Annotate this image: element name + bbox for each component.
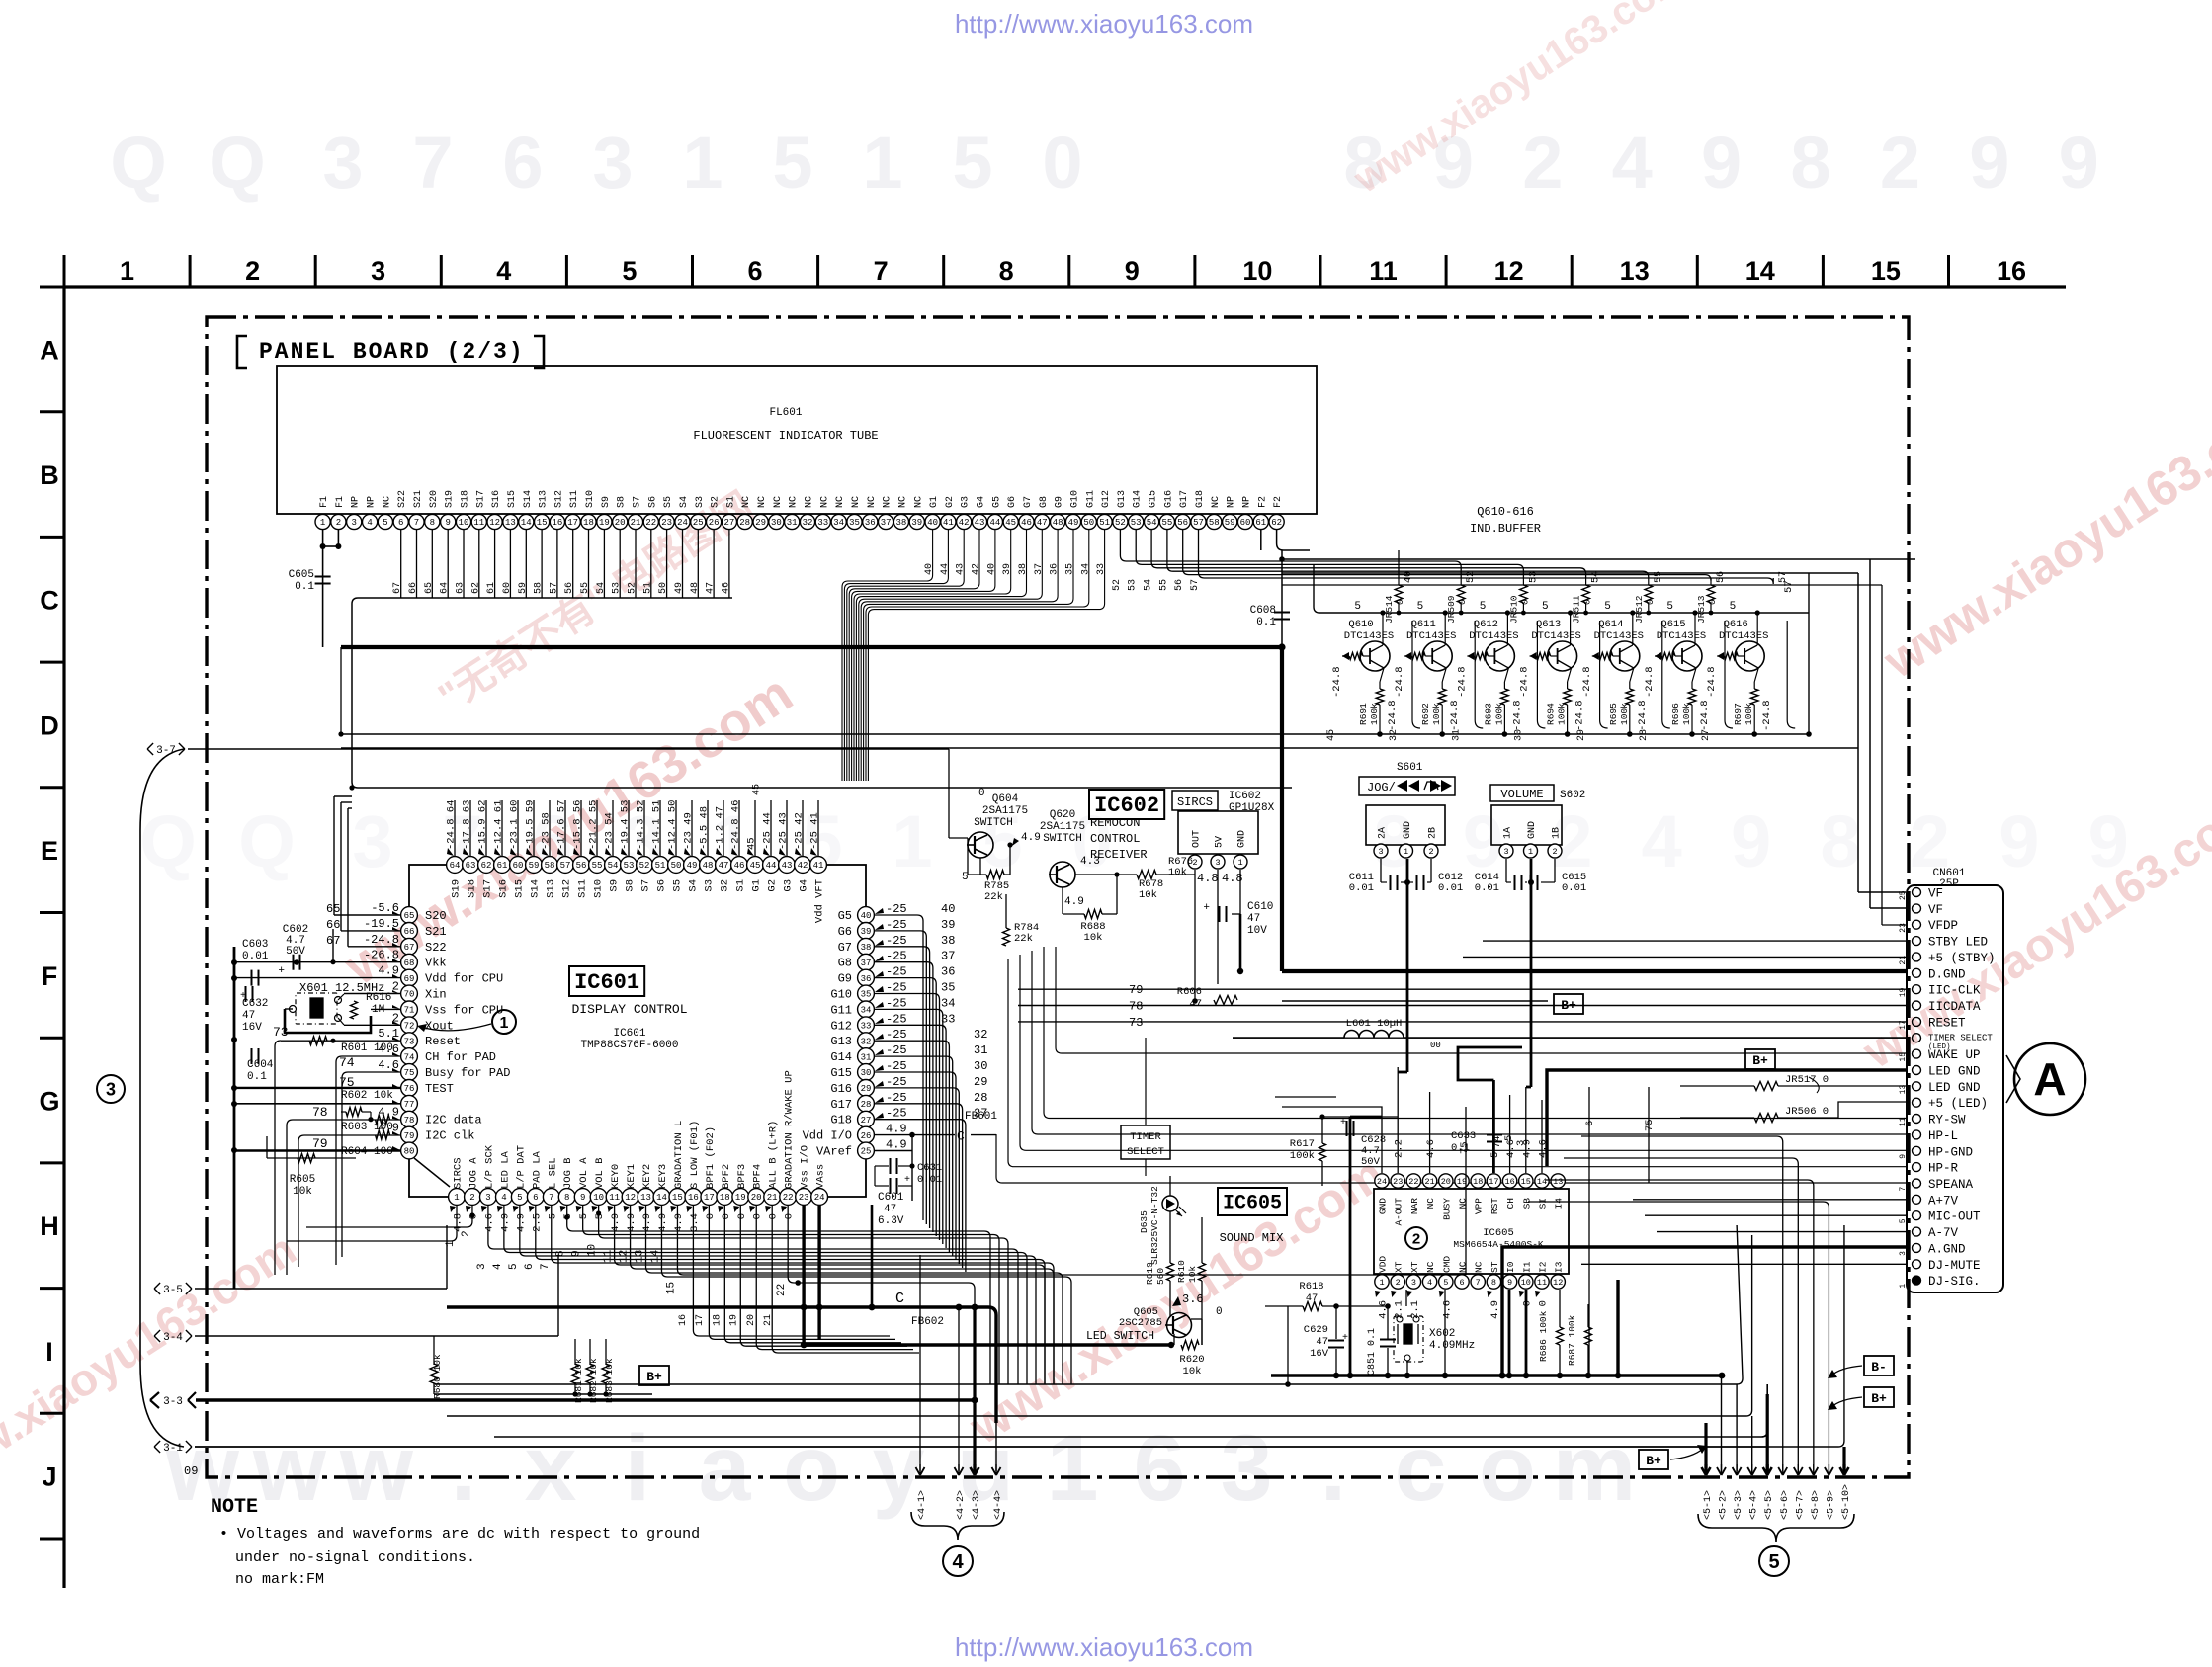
svg-text:D635: D635 xyxy=(1139,1210,1149,1233)
svg-text:Q610-616: Q610-616 xyxy=(1477,505,1534,519)
svg-text:GRADATION R/WAKE UP: GRADATION R/WAKE UP xyxy=(784,1070,796,1189)
svg-text:14: 14 xyxy=(1745,256,1775,286)
svg-text:-25: -25 xyxy=(886,1012,907,1026)
svg-text:65: 65 xyxy=(404,911,415,921)
svg-text:Vss for CPU: Vss for CPU xyxy=(425,1003,503,1017)
svg-text:45: 45 xyxy=(746,837,758,850)
svg-text:1: 1 xyxy=(1047,1416,1099,1521)
svg-text:39: 39 xyxy=(941,918,955,932)
svg-text:14: 14 xyxy=(1537,1177,1547,1187)
svg-text:38: 38 xyxy=(895,518,906,528)
svg-text:74: 74 xyxy=(339,1055,355,1070)
svg-text:0.1: 0.1 xyxy=(295,581,314,593)
svg-text:I4: I4 xyxy=(1554,1198,1565,1209)
svg-text:NC: NC xyxy=(805,496,815,508)
svg-text:NC: NC xyxy=(897,496,908,508)
svg-text:ST: ST xyxy=(1489,1261,1500,1273)
svg-text:10k: 10k xyxy=(293,1186,312,1198)
svg-text:NC: NC xyxy=(1425,1261,1436,1273)
svg-text:56: 56 xyxy=(1174,579,1185,591)
svg-text:NP: NP xyxy=(1241,496,1252,508)
svg-text:1: 1 xyxy=(1379,1278,1384,1288)
svg-text:-23 49: -23 49 xyxy=(683,812,695,850)
svg-text:2B: 2B xyxy=(1428,827,1439,839)
svg-text:NC: NC xyxy=(883,496,893,508)
svg-text:4.6: 4.6 xyxy=(483,1213,495,1232)
svg-text:5: 5 xyxy=(517,1193,522,1203)
svg-text:50V: 50V xyxy=(286,946,305,958)
svg-text:-25: -25 xyxy=(886,981,907,995)
svg-text:4: 4 xyxy=(1612,122,1653,204)
svg-text:-24.8: -24.8 xyxy=(1331,666,1343,698)
svg-text:0: 0 xyxy=(1582,599,1593,605)
svg-text:4.9: 4.9 xyxy=(515,1213,527,1232)
svg-text:15: 15 xyxy=(537,518,548,528)
svg-text:39: 39 xyxy=(861,927,872,937)
svg-text:SLR325VC-N-T32: SLR325VC-N-T32 xyxy=(1149,1186,1160,1265)
svg-text:-24.8: -24.8 xyxy=(1581,666,1593,698)
svg-text:55: 55 xyxy=(1158,579,1169,591)
svg-text:4: 4 xyxy=(952,1551,964,1573)
svg-text:G8: G8 xyxy=(838,957,852,970)
svg-text:5: 5 xyxy=(383,518,387,528)
svg-text:C601: C601 xyxy=(878,1192,904,1204)
svg-text:S20: S20 xyxy=(429,490,440,508)
svg-text:G1: G1 xyxy=(929,496,940,508)
svg-text:Q613: Q613 xyxy=(1536,619,1561,630)
svg-text:I1: I1 xyxy=(1521,1261,1532,1273)
svg-text:http://www.xiaoyu163.com: http://www.xiaoyu163.com xyxy=(955,9,1253,39)
svg-text:S22: S22 xyxy=(397,490,408,508)
svg-text:37: 37 xyxy=(941,950,955,963)
svg-text:S20: S20 xyxy=(425,909,447,923)
svg-text:22: 22 xyxy=(1408,1177,1418,1187)
svg-text:SB: SB xyxy=(1521,1198,1532,1209)
svg-text:LED LA: LED LA xyxy=(499,1150,511,1189)
svg-text:47: 47 xyxy=(884,1204,896,1215)
svg-text:27: 27 xyxy=(1701,729,1712,741)
svg-text:4: 4 xyxy=(492,1263,504,1270)
svg-text:RESET: RESET xyxy=(1928,1016,1966,1030)
svg-text:L601 10µH: L601 10µH xyxy=(1346,1018,1403,1030)
svg-text:-25: -25 xyxy=(886,1043,907,1057)
svg-text:a: a xyxy=(699,1416,752,1521)
svg-text:L/P SCK: L/P SCK xyxy=(483,1144,495,1189)
svg-text:FB601: FB601 xyxy=(965,1111,997,1123)
svg-text:40: 40 xyxy=(861,911,872,921)
svg-text:33: 33 xyxy=(941,1012,955,1026)
svg-text:18: 18 xyxy=(712,1314,723,1326)
svg-text:4.8: 4.8 xyxy=(1197,872,1219,885)
svg-text:10: 10 xyxy=(593,1193,604,1203)
svg-text:IC605: IC605 xyxy=(1223,1192,1282,1214)
svg-text:47: 47 xyxy=(1247,913,1260,925)
svg-text:76: 76 xyxy=(404,1084,415,1094)
svg-text:33: 33 xyxy=(817,518,828,528)
svg-text:R617: R617 xyxy=(1290,1138,1315,1150)
svg-text:0.01: 0.01 xyxy=(1562,882,1586,894)
svg-text:45: 45 xyxy=(1326,729,1337,741)
svg-text:0: 0 xyxy=(752,1213,764,1219)
svg-text:62: 62 xyxy=(470,582,481,594)
svg-text:G17: G17 xyxy=(830,1098,852,1112)
svg-text:<5-6>: <5-6> xyxy=(1780,1490,1791,1520)
svg-text:F2: F2 xyxy=(1257,496,1268,508)
svg-text:NC: NC xyxy=(1458,1261,1469,1273)
svg-text:S9: S9 xyxy=(609,879,621,892)
svg-text:24: 24 xyxy=(814,1193,825,1203)
svg-text:63: 63 xyxy=(466,861,476,871)
svg-text:S13: S13 xyxy=(539,490,550,508)
svg-text:LED GND: LED GND xyxy=(1928,1081,1981,1095)
svg-text:1: 1 xyxy=(682,122,723,204)
svg-text:-23 54: -23 54 xyxy=(604,812,616,850)
svg-text:GND: GND xyxy=(1403,821,1413,839)
svg-text:35: 35 xyxy=(849,518,860,528)
svg-text:-24.8: -24.8 xyxy=(1449,700,1461,731)
svg-text:VDD: VDD xyxy=(1378,1256,1389,1273)
svg-text:4: 4 xyxy=(496,256,511,286)
svg-text:19: 19 xyxy=(729,1314,740,1326)
svg-text:G6: G6 xyxy=(1007,496,1018,508)
svg-text:DTC143ES: DTC143ES xyxy=(1344,630,1394,642)
svg-text:S601: S601 xyxy=(1397,762,1423,774)
svg-text:C632: C632 xyxy=(242,998,268,1010)
svg-text:00: 00 xyxy=(1430,1041,1441,1050)
svg-text:78: 78 xyxy=(1129,1000,1143,1014)
svg-text:<5-4>: <5-4> xyxy=(1749,1490,1760,1520)
svg-text:54: 54 xyxy=(1147,518,1157,528)
svg-text:-24.8: -24.8 xyxy=(1637,700,1649,731)
svg-text:BPF3: BPF3 xyxy=(736,1164,748,1189)
svg-text:IND.BUFFER: IND.BUFFER xyxy=(1470,522,1541,536)
svg-text:2: 2 xyxy=(1552,847,1557,857)
svg-text:C: C xyxy=(40,586,59,616)
svg-text:9: 9 xyxy=(1507,1278,1512,1288)
svg-text:64: 64 xyxy=(450,861,461,871)
svg-text:2: 2 xyxy=(461,1230,472,1237)
svg-text:1: 1 xyxy=(1528,847,1533,857)
svg-text:2SC2785: 2SC2785 xyxy=(1119,1317,1162,1329)
svg-text:VOL A: VOL A xyxy=(578,1157,590,1189)
svg-text:C633: C633 xyxy=(1451,1130,1476,1142)
svg-text:42: 42 xyxy=(798,861,808,871)
svg-text:-5.5 48: -5.5 48 xyxy=(699,806,711,850)
svg-text:0: 0 xyxy=(1216,1306,1223,1318)
svg-text:67: 67 xyxy=(404,943,415,953)
svg-text:5: 5 xyxy=(1480,601,1487,613)
svg-text:17: 17 xyxy=(704,1193,715,1203)
svg-text:1A: 1A xyxy=(1503,827,1514,839)
svg-text:5: 5 xyxy=(1666,601,1673,613)
svg-text:Q620: Q620 xyxy=(1050,809,1075,821)
svg-text:F: F xyxy=(42,961,58,991)
svg-text:100k: 100k xyxy=(1681,703,1692,725)
svg-text:50V: 50V xyxy=(1361,1156,1381,1168)
svg-text:G11: G11 xyxy=(830,1003,852,1017)
svg-text:7: 7 xyxy=(412,122,453,204)
svg-text:• Voltages and waveforms are d: • Voltages and waveforms are dc with res… xyxy=(219,1526,700,1542)
svg-text:61: 61 xyxy=(497,861,508,871)
svg-text:R691: R691 xyxy=(1358,703,1369,725)
svg-text:44: 44 xyxy=(940,563,951,575)
svg-text:SWITCH: SWITCH xyxy=(1043,833,1082,845)
svg-text:Q616: Q616 xyxy=(1724,619,1748,630)
svg-text:28: 28 xyxy=(739,518,750,528)
svg-text:L SEL: L SEL xyxy=(547,1157,558,1189)
svg-text:44: 44 xyxy=(766,861,777,871)
svg-text:S12: S12 xyxy=(553,490,564,508)
svg-text:12: 12 xyxy=(1553,1278,1563,1288)
svg-text:S10: S10 xyxy=(585,490,596,508)
svg-text:3-5: 3-5 xyxy=(163,1285,183,1296)
svg-text:73: 73 xyxy=(273,1025,289,1040)
svg-text:-25: -25 xyxy=(886,1075,907,1089)
svg-text:9: 9 xyxy=(1969,122,2009,204)
svg-text:S6: S6 xyxy=(647,496,658,508)
svg-text:23: 23 xyxy=(661,518,672,528)
svg-text:9: 9 xyxy=(1125,256,1140,286)
svg-text:560: 560 xyxy=(1155,1268,1166,1285)
svg-text:73: 73 xyxy=(1129,1016,1143,1030)
svg-text:+: + xyxy=(1342,1333,1348,1344)
svg-text:GND: GND xyxy=(1237,830,1248,848)
svg-text:62: 62 xyxy=(1271,518,1282,528)
svg-text:<4-2>: <4-2> xyxy=(956,1490,967,1520)
svg-text:JR517 0: JR517 0 xyxy=(1785,1074,1829,1086)
svg-text:24: 24 xyxy=(1377,1177,1387,1187)
svg-text:4.8: 4.8 xyxy=(453,1213,465,1232)
svg-text:IC602: IC602 xyxy=(1094,793,1159,818)
svg-text:-25 44: -25 44 xyxy=(762,812,774,850)
svg-text:IC605: IC605 xyxy=(1483,1227,1514,1239)
svg-text:under no-signal conditions.: under no-signal conditions. xyxy=(235,1549,475,1566)
svg-text:4.9: 4.9 xyxy=(1489,1300,1501,1319)
svg-text:0.1: 0.1 xyxy=(1256,617,1276,628)
svg-text:KEY1: KEY1 xyxy=(626,1164,638,1189)
svg-text:<5-7>: <5-7> xyxy=(1795,1490,1806,1520)
svg-text:NP: NP xyxy=(367,496,378,508)
svg-text:ALL B (L+R): ALL B (L+R) xyxy=(768,1121,780,1189)
svg-text:KEY3: KEY3 xyxy=(657,1164,669,1189)
svg-text:R696: R696 xyxy=(1670,703,1681,725)
svg-text:BPF1 (F02): BPF1 (F02) xyxy=(705,1126,717,1189)
svg-text:http://www.xiaoyu163.com: http://www.xiaoyu163.com xyxy=(955,1632,1253,1662)
svg-text:3-7: 3-7 xyxy=(156,745,176,757)
svg-text:JR513: JR513 xyxy=(1696,595,1707,624)
svg-text:79: 79 xyxy=(404,1131,415,1141)
svg-text:50: 50 xyxy=(671,861,682,871)
svg-text:4.9: 4.9 xyxy=(499,1213,511,1232)
svg-text:0: 0 xyxy=(784,1213,796,1219)
svg-text:OUT: OUT xyxy=(1192,830,1203,848)
svg-text:8: 8 xyxy=(564,1193,569,1203)
svg-text:30: 30 xyxy=(771,518,782,528)
svg-text:B+: B+ xyxy=(646,1370,662,1384)
svg-text:-24.8: -24.8 xyxy=(1644,666,1656,698)
svg-text:52: 52 xyxy=(639,861,650,871)
svg-text:4.9: 4.9 xyxy=(673,1213,685,1232)
svg-text:HP-GND: HP-GND xyxy=(1928,1145,1973,1159)
svg-text:100k: 100k xyxy=(1369,703,1380,725)
svg-text:Q: Q xyxy=(110,122,167,204)
svg-text:20: 20 xyxy=(746,1314,757,1326)
svg-text:S3: S3 xyxy=(704,879,716,892)
svg-text:2SA1175: 2SA1175 xyxy=(982,805,1028,817)
svg-text:JR512: JR512 xyxy=(1634,595,1645,624)
svg-text:53: 53 xyxy=(1131,518,1142,528)
svg-text:G9: G9 xyxy=(1055,496,1065,508)
svg-text:5: 5 xyxy=(508,1263,520,1270)
svg-text:35: 35 xyxy=(1064,563,1075,575)
svg-text:10: 10 xyxy=(459,518,469,528)
svg-text:+: + xyxy=(1203,902,1210,914)
svg-text:4.6: 4.6 xyxy=(1425,1139,1437,1158)
svg-text:.: . xyxy=(451,1416,476,1521)
svg-text:TIMER SELECT: TIMER SELECT xyxy=(1928,1034,1993,1043)
svg-text:NC: NC xyxy=(913,496,924,508)
svg-text:5V: 5V xyxy=(1215,836,1226,848)
svg-text:S12: S12 xyxy=(561,879,573,898)
svg-text:78: 78 xyxy=(312,1105,328,1120)
svg-text:-25: -25 xyxy=(886,934,907,948)
svg-text:JOG A: JOG A xyxy=(468,1157,479,1189)
svg-text:36: 36 xyxy=(861,974,872,984)
svg-text:2.2: 2.2 xyxy=(1394,1139,1405,1158)
svg-text:3: 3 xyxy=(1221,1416,1273,1521)
svg-text:4: 4 xyxy=(1642,800,1682,882)
svg-text:1: 1 xyxy=(454,1193,459,1203)
svg-text:-24.8: -24.8 xyxy=(1519,666,1531,698)
svg-text:XT: XT xyxy=(1394,1261,1404,1273)
svg-text:A: A xyxy=(40,335,59,365)
svg-text:<5-9>: <5-9> xyxy=(1826,1490,1836,1520)
svg-text:21: 21 xyxy=(763,1314,774,1326)
svg-text:S3: S3 xyxy=(695,496,706,508)
svg-text:RST: RST xyxy=(1489,1198,1500,1214)
svg-text:30: 30 xyxy=(974,1059,987,1073)
svg-text:-24.8: -24.8 xyxy=(1511,700,1523,731)
svg-text:G11: G11 xyxy=(1085,490,1096,508)
svg-text:9: 9 xyxy=(1999,800,2039,882)
svg-text:D.GND: D.GND xyxy=(1928,967,1966,981)
svg-text:7: 7 xyxy=(414,518,419,528)
svg-text:1: 1 xyxy=(320,518,325,528)
svg-text:CMD: CMD xyxy=(1441,1256,1452,1273)
svg-text:16: 16 xyxy=(688,1193,699,1203)
svg-text:3: 3 xyxy=(322,122,363,204)
svg-text:2: 2 xyxy=(245,256,260,286)
svg-text:4: 4 xyxy=(367,518,372,528)
svg-text:6: 6 xyxy=(747,256,762,286)
svg-text:20: 20 xyxy=(1441,1177,1451,1187)
svg-text:NC: NC xyxy=(382,496,392,508)
svg-text:-24.8 46: -24.8 46 xyxy=(730,800,742,850)
svg-text:41: 41 xyxy=(943,518,954,528)
svg-text:3: 3 xyxy=(352,800,392,882)
svg-text:DJ-MUTE: DJ-MUTE xyxy=(1928,1259,1981,1273)
svg-text:34: 34 xyxy=(941,996,955,1010)
svg-text:13: 13 xyxy=(1620,256,1650,286)
svg-text:Vdd for CPU: Vdd for CPU xyxy=(425,972,503,986)
svg-text:37: 37 xyxy=(1034,563,1045,575)
svg-text:C851 0.1: C851 0.1 xyxy=(1367,1328,1378,1375)
svg-text:Q: Q xyxy=(139,800,197,882)
svg-text:JR506 0: JR506 0 xyxy=(1785,1106,1829,1118)
svg-text:<5-5>: <5-5> xyxy=(1764,1490,1775,1520)
svg-text:<5-3>: <5-3> xyxy=(1734,1490,1744,1520)
svg-text:-24.8: -24.8 xyxy=(1387,700,1399,731)
svg-text:-25: -25 xyxy=(886,965,907,979)
svg-text:9: 9 xyxy=(571,1250,583,1257)
svg-text:0: 0 xyxy=(768,1213,780,1219)
svg-text:NC: NC xyxy=(1474,1261,1485,1273)
svg-text:100k: 100k xyxy=(1744,703,1754,725)
svg-text:73: 73 xyxy=(404,1037,415,1046)
svg-text:23: 23 xyxy=(1899,923,1908,933)
svg-text:16: 16 xyxy=(552,518,562,528)
svg-text:16: 16 xyxy=(1997,256,2026,286)
svg-text:4.9: 4.9 xyxy=(657,1213,669,1232)
svg-text:16V: 16V xyxy=(1310,1348,1329,1360)
svg-text:1: 1 xyxy=(892,800,932,882)
svg-text:S16: S16 xyxy=(491,490,502,508)
svg-text:S4: S4 xyxy=(679,496,690,508)
svg-text:-12.4 50: -12.4 50 xyxy=(667,800,679,850)
svg-text:2: 2 xyxy=(1412,1230,1420,1247)
svg-text:CH: CH xyxy=(1505,1198,1516,1209)
svg-text:-12.4 61: -12.4 61 xyxy=(493,800,505,850)
svg-text:55: 55 xyxy=(1161,518,1172,528)
svg-text:NC: NC xyxy=(757,496,768,508)
svg-text:5: 5 xyxy=(1354,601,1361,613)
svg-text:R610: R610 xyxy=(1176,1260,1187,1283)
svg-text:0.01: 0.01 xyxy=(242,951,269,962)
svg-text:S6: S6 xyxy=(656,879,668,892)
svg-text:5: 5 xyxy=(772,122,812,204)
svg-text:35: 35 xyxy=(861,990,872,1000)
svg-text:29: 29 xyxy=(1576,729,1587,741)
svg-text:5: 5 xyxy=(1604,601,1611,613)
svg-text:9: 9 xyxy=(1731,800,1771,882)
svg-text:0: 0 xyxy=(705,1213,717,1219)
svg-text:C631: C631 xyxy=(917,1162,942,1174)
svg-text:17: 17 xyxy=(1489,1177,1498,1187)
svg-text:Q612: Q612 xyxy=(1474,619,1498,630)
svg-text:9: 9 xyxy=(1701,122,1742,204)
svg-text:KEY0: KEY0 xyxy=(610,1164,622,1189)
svg-text:32: 32 xyxy=(974,1028,987,1042)
svg-text:B+: B+ xyxy=(1561,998,1576,1013)
svg-text:DTC143ES: DTC143ES xyxy=(1657,630,1706,642)
svg-text:14: 14 xyxy=(521,518,532,528)
svg-text:-25: -25 xyxy=(886,1028,907,1042)
svg-text:42: 42 xyxy=(972,563,982,575)
svg-text:R697: R697 xyxy=(1733,703,1744,725)
svg-text:-25: -25 xyxy=(886,1107,907,1121)
svg-text:BUSY: BUSY xyxy=(1441,1198,1452,1220)
svg-text:Q611: Q611 xyxy=(1411,619,1436,630)
svg-text:SOUND MIX: SOUND MIX xyxy=(1220,1231,1284,1245)
svg-text:3.6: 3.6 xyxy=(1182,1292,1204,1306)
svg-text:<4-4>: <4-4> xyxy=(993,1490,1004,1520)
svg-text:WAKE UP: WAKE UP xyxy=(1928,1048,1981,1062)
svg-text:5: 5 xyxy=(1443,1278,1448,1288)
svg-text:G18: G18 xyxy=(830,1114,852,1127)
svg-text:30: 30 xyxy=(861,1068,872,1078)
svg-text:12: 12 xyxy=(619,1250,631,1263)
svg-text:0: 0 xyxy=(721,1213,732,1219)
